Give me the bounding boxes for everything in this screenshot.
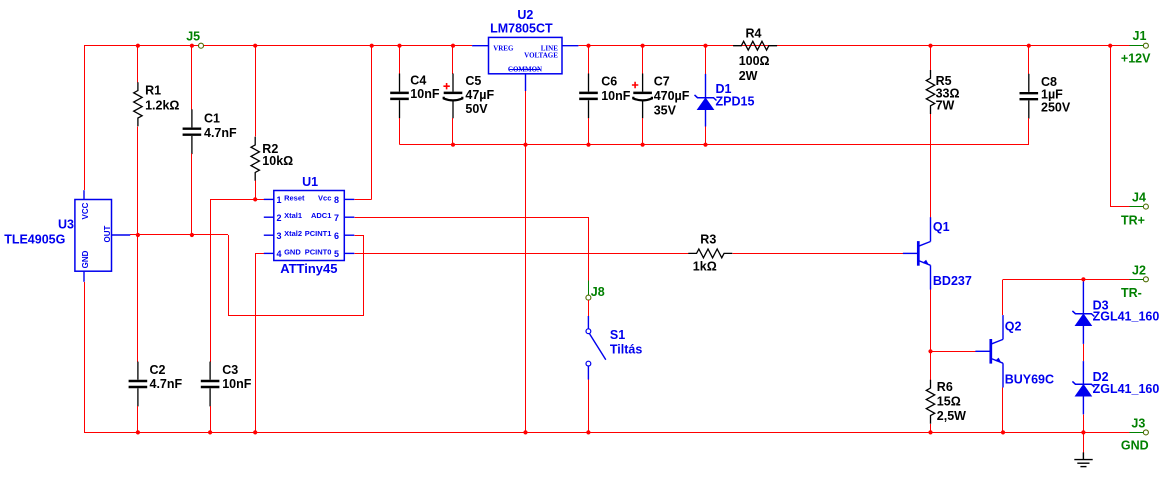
svg-text:3: 3 [276,231,281,241]
node J1 [1143,43,1148,48]
svg-text:100Ω: 100Ω [739,54,770,68]
svg-text:BUY69C: BUY69C [1005,372,1054,386]
diode D1 ZPD15 zener [695,74,717,127]
wire R1 bottom [137,126,139,235]
svg-text:VREG: VREG [493,44,514,52]
capacitor C1 [183,109,202,154]
svg-text:2,5W: 2,5W [937,409,966,423]
wire R6 top [930,351,932,380]
junction D3/TR- [1081,277,1085,281]
wire to U1 PCINT1 bottom run [228,315,363,317]
svg-text:GND: GND [284,247,301,256]
junction COMMON/rail [523,143,527,147]
svg-text:J4: J4 [1132,191,1146,205]
svg-text:6: 6 [334,231,339,241]
svg-text:4: 4 [276,249,281,259]
wire U1 pin7 ADC1 [354,217,588,219]
capacitor C3 [201,362,220,407]
svg-text:1kΩ: 1kΩ [693,260,717,274]
op-amp U1 MCU ATTiny45 [264,191,355,261]
svg-text:TLE4905G: TLE4905G [4,233,65,247]
svg-text:ADC1: ADC1 [311,211,331,220]
wire C5 top [452,46,454,74]
wire +12V top bus right [578,45,1129,47]
capacitor C6 [579,74,598,119]
capacitor C2 [129,362,148,407]
junction R1/top bus [136,44,140,48]
svg-text:15Ω: 15Ω [937,394,961,408]
capacitor C5 [444,74,463,119]
wire Q1 base [902,253,904,255]
junction C7/rail [641,143,645,147]
svg-text:VCC: VCC [81,202,90,219]
strike line over COMMON [509,69,540,71]
resistor R3 [688,249,732,258]
diode D3 ZGL41_160 zener [1072,282,1094,344]
junction C5/rail [451,143,455,147]
svg-text:PCINT1: PCINT1 [305,229,332,238]
wire C6 bottom [588,118,590,145]
transistor Q2 BUY69C [975,315,1003,387]
wire ground bus [84,432,1130,434]
junction S1/ground bus [586,430,590,434]
wire R2 bottom [255,181,257,200]
svg-text:50V: 50V [465,102,488,116]
svg-text:7W: 7W [936,99,955,113]
svg-text:250V: 250V [1041,100,1071,114]
wire D1 top [705,46,707,74]
svg-text:ZGL41_160: ZGL41_160 [1093,310,1160,324]
wire C3 bottom [210,406,212,432]
svg-text:C5: C5 [465,74,481,88]
svg-text:ATTiny45: ATTiny45 [280,261,337,276]
junction C4/top bus [397,44,401,48]
junction R5/top bus [928,44,932,48]
svg-text:Xtal1: Xtal1 [284,211,302,220]
svg-text:R1: R1 [145,83,161,97]
svg-text:ZGL41_160: ZGL41_160 [1093,382,1160,396]
svg-text:C3: C3 [222,363,238,377]
svg-text:Reset: Reset [284,193,305,202]
svg-text:C1: C1 [204,111,220,125]
op-amp U2 regulator LM7805CT [472,37,578,91]
junction C2/ground bus [136,430,140,434]
svg-text:TR+: TR+ [1121,214,1145,228]
svg-text:LM7805CT: LM7805CT [490,21,553,35]
junction R2/top bus [253,44,257,48]
svg-text:VOLTAGE: VOLTAGE [524,52,558,60]
wire R1 top [137,46,139,83]
svg-text:C2: C2 [150,363,166,377]
svg-text:C6: C6 [601,74,617,88]
svg-text:BD237: BD237 [933,274,972,288]
wire to Q2 base [931,351,976,353]
svg-text:10kΩ: 10kΩ [262,154,293,168]
junction D1/top bus [703,44,707,48]
junction C6/rail [586,143,590,147]
wire Q1 emitter down [930,289,932,351]
svg-text:1.2kΩ: 1.2kΩ [145,98,179,112]
wire C7 top [642,46,644,74]
junction Q2 emitter/ground bus [1001,430,1005,434]
svg-text:GND: GND [81,250,90,268]
svg-text:R3: R3 [700,233,716,247]
wire C6 top [588,46,590,74]
junction C6/top bus [586,44,590,48]
wire C8 bottom [1028,118,1030,145]
junction J4/top bus [1108,44,1112,48]
wire U2 output [578,45,588,47]
junction R6/ground bus [928,430,932,434]
junction C1/OUT [190,233,194,237]
wire U1 pin4 to ground bus [255,253,257,432]
svg-text:4.7nF: 4.7nF [150,377,183,391]
wire J2 green stub [1130,279,1144,281]
wire to U2 VREG input [453,45,472,47]
junction C3/ground bus [208,430,212,434]
svg-text:OUT: OUT [103,225,112,242]
wire +12V top bus left [84,45,472,47]
svg-text:Q1: Q1 [933,220,950,234]
junction Q1 emitter/R6/Q2 base [928,349,932,353]
svg-text:TR-: TR- [1121,286,1142,300]
svg-text:PCINT0: PCINT0 [305,247,332,256]
wire C1 top [191,46,193,110]
svg-text:Tiltás: Tiltás [610,343,642,357]
wire J4 green stub [1130,206,1144,208]
wire R5 top [930,46,932,70]
wire C2 bottom [137,406,139,432]
junction C8/top bus [1027,44,1031,48]
wire U2 COMMON down [525,91,527,432]
svg-text:J3: J3 [1131,417,1145,431]
svg-text:R4: R4 [746,27,762,41]
svg-text:35V: 35V [654,103,677,117]
svg-text:1: 1 [276,195,281,205]
wire R5 to Q1 collector (crosses rail) [930,114,932,217]
wire U1 pin4 link [255,253,264,255]
wire C4 top [399,46,401,74]
junction C5/top bus [451,44,455,48]
wire C2 top [137,235,139,362]
node J5 [199,43,204,48]
polarity + of C5 [443,83,449,89]
svg-text:GND: GND [1121,439,1149,453]
wire C1 bottom [191,154,193,235]
wire C8 top [1028,46,1030,74]
wire D3 top [1083,279,1085,281]
wire D3 to D2 [1083,344,1085,361]
wire U3 OUT line [130,234,228,236]
junction D1/rail [703,143,707,147]
wire U1 pin5 PCINT0 to R3 [354,253,688,255]
svg-text:10nF: 10nF [222,377,252,391]
svg-text:J2: J2 [1132,263,1146,277]
wire to J4 [1110,206,1130,208]
capacitor C7 [633,74,652,119]
wire U1 pin8 link [354,199,371,201]
svg-text:2W: 2W [739,69,758,83]
svg-text:8: 8 [334,195,339,205]
svg-text:4.7nF: 4.7nF [204,126,237,140]
svg-text:U2: U2 [517,8,533,22]
svg-text:2: 2 [276,213,281,223]
wire C5 bottom [452,118,454,145]
svg-text:Xtal2: Xtal2 [284,229,302,238]
svg-text:U3: U3 [58,218,74,232]
wire R3 to Q1 base [732,253,903,255]
node J8 [586,295,591,300]
wire Q2 collector up [1002,279,1004,315]
wire S1 to ground bus [588,380,590,433]
wire J4 drop [1110,46,1112,207]
svg-text:C4: C4 [410,73,426,87]
svg-text:J5: J5 [186,29,200,43]
wire down to J8 [588,217,590,280]
junction U1 GND/ground bus [253,430,257,434]
svg-text:5: 5 [334,249,339,259]
svg-text:C7: C7 [654,74,670,88]
wire D2 bottom [1083,414,1085,432]
diode D2 ZGL41_160 zener [1072,361,1094,414]
junction COMMON/ground bus [523,430,527,434]
junction U1 Vcc/top bus [370,44,374,48]
junction ground symbol/ground bus [1081,430,1085,434]
ground [1074,452,1092,466]
wire U1 pin1 line [210,199,264,201]
wire D1 bottom [705,127,707,145]
svg-text:47µF: 47µF [465,88,494,102]
wire common rail [400,144,1029,146]
resistor R1 [134,82,142,126]
svg-text:Q2: Q2 [1005,320,1022,334]
wire C3 top (crosses OUT line) [210,199,212,362]
wire J8 green stub [588,280,590,295]
resistor R2 [251,137,259,181]
wire U1 pin6 link [354,235,363,237]
switch S1 [586,316,606,380]
wire R2 top [255,46,257,137]
svg-text:ZPD15: ZPD15 [716,95,755,109]
node J4 [1143,204,1148,209]
svg-text:+12V: +12V [1121,52,1151,66]
junction C1/top bus [190,44,194,48]
node J2 [1143,277,1148,282]
svg-text:U1: U1 [302,175,318,189]
wire down from OUT line [228,235,230,316]
junction R1/OUT [136,233,140,237]
wire TR- line [1003,279,1130,281]
wire up to U1 pin 6 [363,235,365,316]
capacitor C4 [390,74,409,119]
svg-text:J1: J1 [1133,29,1147,43]
svg-text:J8: J8 [591,285,605,299]
svg-text:S1: S1 [610,328,625,342]
wire to ground symbol [1083,432,1085,452]
svg-text:7: 7 [334,213,339,223]
resistor R5 [926,70,934,114]
junction R2/pin1 [253,197,257,201]
node J3 [1143,430,1148,435]
svg-text:10nF: 10nF [601,89,631,103]
polarity + of C7 [632,82,638,88]
junction C7/top bus [641,44,645,48]
resistor R6 [926,380,934,424]
wire C4 bottom [399,118,401,145]
svg-text:R6: R6 [937,380,953,394]
svg-text:10nF: 10nF [410,87,440,101]
resistor R4 [733,41,777,50]
wire J1 green stub [1130,45,1144,47]
transistor Q1 BD237 [903,217,931,289]
wire J3 green stub [1130,432,1144,434]
wire J8 to S1 [588,300,590,316]
wire R6 bottom [930,424,932,433]
op-amp U3 sensor TLE4905G [75,190,130,282]
wire to U3 VCC [84,46,86,191]
wire C7 bottom [642,118,644,145]
wire U1 Vcc up [371,46,373,200]
capacitor C8 [1020,74,1039,119]
svg-text:470µF: 470µF [654,89,690,103]
wire Q2 emitter down [1002,388,1004,433]
svg-text:Vcc: Vcc [318,193,331,202]
wire U3 GND down [84,282,86,433]
